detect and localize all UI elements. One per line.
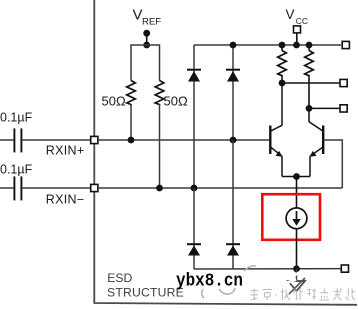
resistor R1 50ohm (RXIN+ termination): [127, 81, 136, 105]
wire VCC stub: [296, 33, 298, 45]
wire ground rail: [194, 268, 345, 270]
junction R4 bottom / output tap: [306, 105, 313, 112]
diode D4 (ground to RXIN+, upward): [226, 140, 240, 269]
wire emitters common: [282, 176, 310, 178]
wire C1 to RXIN+ terminal: [22, 139, 90, 141]
svg-text:V: V: [286, 7, 295, 22]
wire RXIN- input lead (left of C2): [0, 187, 14, 189]
junction D2/rail: [230, 42, 237, 49]
wire VREF to R1/R2 tops: [131, 45, 160, 81]
junction emitter node: [293, 173, 300, 180]
junction R4/rail: [306, 42, 313, 49]
junction R2/RXIN-: [156, 185, 163, 192]
wire RXIN+ input lead (left of C1): [0, 139, 14, 141]
highlight box (red) around current source: [262, 194, 320, 240]
transistor Q2 (right NPN of diff pair): [309, 108, 323, 176]
svg-text:STRUCTURE: STRUCTURE: [107, 286, 184, 300]
wire emitter node to current source: [296, 177, 298, 208]
svg-text:0.1µF: 0.1µF: [0, 163, 33, 177]
terminal pad T3 (open square): [340, 105, 347, 112]
junction VREF center tap: [143, 42, 150, 49]
wire R1 bottom to RXIN+: [130, 104, 132, 140]
wire current source to ground rail: [296, 229, 298, 269]
junction R1/RXIN+: [128, 137, 135, 144]
wire VCC rail: [194, 44, 341, 46]
svg-text:0.1µF: 0.1µF: [0, 111, 33, 125]
resistor R2 50ohm (RXIN- termination): [155, 81, 164, 105]
terminal pad T4 (ground rail, open square): [341, 265, 348, 272]
capacitor C1 0.1uF: [14, 128, 21, 152]
wire output tap left to T2: [282, 82, 340, 84]
transistor Q1 (left NPN of diff pair): [270, 83, 282, 177]
junction D1/RXIN-: [191, 185, 198, 192]
resistor R3 (left collector load): [278, 45, 287, 83]
svg-text:REF: REF: [142, 17, 161, 28]
junction D2/RXIN+: [230, 137, 237, 144]
junction R3/rail: [279, 42, 286, 49]
wire VREF stub: [146, 33, 148, 45]
watermark swoosh marks: [202, 266, 256, 298]
ESD structure boundary box: [94, 0, 357, 305]
resistor R4 (right collector load): [305, 45, 314, 108]
terminal pad T1 (VCC rail, right edge): [342, 41, 349, 48]
junction ground node: [293, 265, 300, 272]
wire RXIN- net (terminal to right corner): [98, 187, 342, 189]
junction VCC/rail: [293, 42, 300, 49]
wire C2 to RXIN- terminal: [22, 187, 90, 189]
svg-text:50Ω: 50Ω: [164, 93, 188, 108]
wire output tap right to T3: [309, 107, 340, 109]
diode D2 (RXIN+ to VCC, upward): [226, 45, 240, 140]
svg-text:V: V: [133, 7, 143, 24]
current source I1: [286, 208, 307, 229]
svg-text:50Ω: 50Ω: [102, 93, 126, 108]
ground symbol: [285, 269, 305, 294]
svg-text:CC: CC: [296, 16, 308, 26]
svg-text:RXIN−: RXIN−: [46, 193, 85, 207]
watermark chinese caption: [250, 289, 355, 301]
terminal pad RXIN+ (open square): [91, 136, 98, 143]
wire R2 bottom to RXIN- (crosses RXIN+): [159, 104, 161, 188]
diode D3 (ground to RXIN-, upward): [187, 188, 201, 269]
junction R3 bottom / output tap: [279, 80, 286, 87]
svg-text:RXIN+: RXIN+: [46, 143, 85, 157]
svg-text:ESD: ESD: [107, 271, 132, 285]
diode D1 (RXIN- to VCC, upward): [187, 45, 201, 188]
wire Q2 base to RXIN-: [323, 140, 342, 188]
terminal pad VCC (open square): [294, 26, 301, 33]
terminal pad T2 (open square): [340, 79, 347, 86]
wire RXIN+ net (terminal to Q1 base): [98, 139, 270, 141]
capacitor C2 0.1uF: [14, 176, 21, 200]
terminal pad RXIN- (open square): [91, 184, 98, 191]
svg-text:ybx8.cn: ybx8.cn: [176, 272, 243, 292]
node VREF (dot terminal): [143, 30, 150, 37]
